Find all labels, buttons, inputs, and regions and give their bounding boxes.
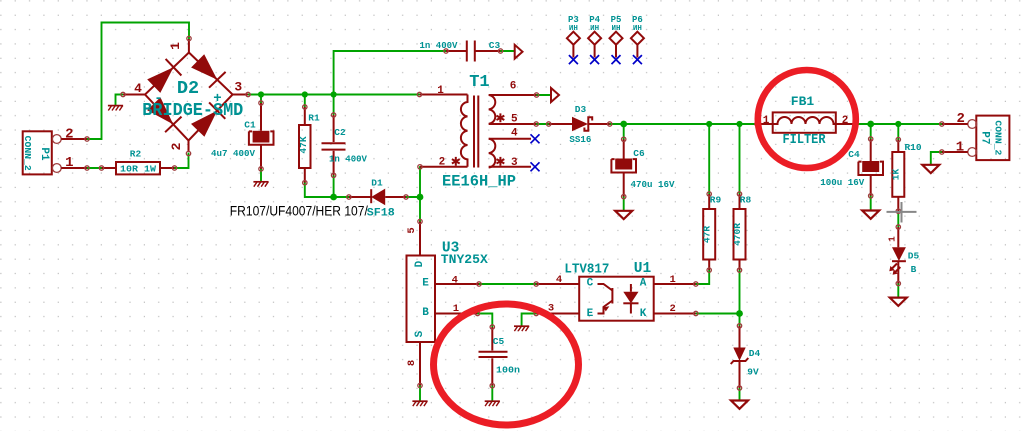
wire U3 pin8 to ground [419,386,421,402]
pin-end circle R8 top [737,192,741,196]
node junction C2/bus [331,91,337,97]
svg-text:P3: P3 [568,15,579,25]
test point P4 [588,15,601,64]
wire R8 top stub [739,124,741,194]
svg-text:FB1: FB1 [791,94,815,109]
ground D4 (open triangle) [731,401,748,409]
wire U1 pin1 to R9 [696,270,709,284]
svg-text:R10: R10 [904,142,921,153]
wire C1 stub [260,95,262,104]
svg-text:D3: D3 [575,104,587,115]
ground C4 (open triangle) [862,211,879,219]
svg-text:100n: 100n [496,365,520,376]
capacitor C4 [820,139,883,196]
svg-text:SS16: SS16 [569,134,591,145]
wire C4 top stub [870,124,872,139]
pin-end circle R2 right [172,166,176,170]
pin-end circle R9 top [707,192,711,196]
pin-end circle T1 pin2 [418,165,422,169]
hierarchical arrow T1 pin6 net [551,88,559,102]
wire junction down to U3 pin5 [419,197,421,222]
pin-end circle bridge pin2 [186,151,190,155]
svg-text:C6: C6 [633,148,645,159]
polarity mark pin5 [497,113,505,122]
svg-text:5: 5 [511,114,518,126]
svg-text:+: + [213,91,221,107]
hierarchical arrow C3 net [515,45,523,59]
capacitor C2 [322,115,368,175]
LED inside U1 [630,284,632,314]
node junction C1/bus [258,91,264,97]
node junction R10/output bus [895,121,901,127]
wire T1 pin5 to D3 [536,123,549,125]
svg-text:R1: R1 [308,113,320,124]
wire C5 bottom to ground [491,386,493,401]
svg-text:5: 5 [406,227,418,233]
diode D3 schottky [549,104,610,145]
svg-text:9V: 9V [747,367,759,378]
wire R10 bottom to D5 [897,211,899,227]
svg-text:P1: P1 [38,147,50,161]
svg-text:E: E [587,308,594,320]
svg-text:B: B [911,264,917,275]
svg-text:C4: C4 [848,149,860,160]
svg-text:1K: 1K [891,169,902,181]
pin-end circle C6 bottom [622,194,626,198]
pin-end circle U3 pin5 [418,219,422,223]
svg-text:C2: C2 [334,127,346,138]
pin-end circle T1 pin1 [417,92,421,96]
svg-text:P6: P6 [632,15,643,25]
pin-end circle C3 left [444,49,448,53]
op-amp U3 TNY25X [406,222,489,386]
capacitor C5 [479,327,521,386]
pin-end circle bridge pin4 [121,92,125,96]
annotation circle around FB1 [758,70,856,168]
pin-end circle R2 left [99,166,103,170]
resistor R9 [702,194,722,270]
resistor R2 [102,149,175,175]
wire R1 top stub [304,95,306,108]
pin-end circle P1 pin1 [85,166,89,170]
pin-end circle C5 top [490,325,494,329]
svg-text:T1: T1 [469,73,489,92]
svg-text:FR107/UF4007/HER 107/: FR107/UF4007/HER 107/ [230,204,368,220]
svg-text:1: 1 [887,236,898,242]
wire C6 top stub [623,124,625,139]
optocoupler U1 LTV817 [536,261,696,321]
note text FR107 [230,204,368,220]
pin-end circle bridge pin3 [246,92,250,96]
svg-text:C: C [587,278,594,290]
diode BR B->R [191,111,217,137]
svg-text:CONN_2: CONN_2 [993,120,1003,155]
pin-end circle R10 bottom [896,209,900,213]
polarity mark pin3 [497,157,505,166]
svg-text:P7: P7 [979,131,991,144]
svg-text:1: 1 [670,274,676,286]
pin-end circle P7 pin2 [940,122,944,126]
svg-text:A: A [640,278,647,290]
wire C3 to arrow [501,50,515,52]
svg-text:1n 400V: 1n 400V [329,154,367,165]
svg-text:D: D [414,260,426,267]
pin-end circle C4 top [869,137,873,141]
svg-text:C5: C5 [493,336,505,347]
svg-text:LTV817: LTV817 [564,262,609,278]
svg-text:2: 2 [956,111,964,127]
resistor R8 [732,194,752,270]
pin-end circle T1 pin5 [534,122,538,126]
pin-end circle R1 bottom [303,181,307,185]
wire U3 pinE to U1 pin4 [479,283,536,285]
pin-end circle R1 top [303,105,307,109]
diode TL L->T [147,67,173,93]
node junction D1/T1 pin2/U3 pin5 [417,194,424,201]
pin-end circle U1 pin1 [694,282,698,286]
diode TR T->R [191,54,217,80]
pin-end circle C5 bottom [490,384,494,388]
ground P7 pin1 (open triangle) [922,165,939,173]
svg-text:1: 1 [168,42,183,50]
node junction R9/secondary bus [706,121,712,127]
svg-text:3: 3 [234,80,242,95]
svg-text:FILTER: FILTER [783,132,826,148]
svg-text:C1: C1 [244,119,256,130]
svg-text:SF18: SF18 [367,207,395,219]
pin-end circle D3 right [608,122,612,126]
pin-end circle D4 top [737,324,741,328]
svg-text:D4: D4 [749,348,761,359]
svg-text:10R 1W: 10R 1W [120,164,156,175]
wire HV bus bridge pin3 to T1 pin1 [248,94,420,96]
node junction C2/D1 net [330,194,337,201]
svg-text:R2: R2 [130,149,142,160]
svg-text:CONN_2: CONN_2 [22,136,32,171]
svg-text:1: 1 [437,85,444,97]
svg-text:2: 2 [842,115,849,127]
svg-text:D1: D1 [371,178,383,189]
wire top loop bridge pin1 to P1 pin2 [87,23,189,140]
wire T1 pin6 to arrow [537,94,552,96]
node junction R8/D4/U1 pin2 [736,310,743,317]
svg-text:3: 3 [511,157,518,169]
pin-end circle P7 pin1 [940,150,944,154]
svg-text:8: 8 [406,360,418,366]
connector P7 [942,111,1010,160]
ground C5 (hatched) [485,401,500,406]
transformer T1 [420,73,537,190]
svg-text:2: 2 [670,303,676,315]
node junction R8/secondary bus [736,121,742,127]
pin-end circle FB1 left [755,122,759,126]
wire C2 top stub [333,95,335,116]
pin-end circle bridge pin1 [187,36,191,40]
LED D5 [887,227,920,284]
pin-end circle D5 top [896,225,900,229]
svg-text:D2: D2 [177,78,199,99]
ground U1 pin3 stub (hatched) [514,326,529,331]
pin-end circle D1 right [404,195,408,199]
svg-text:B: B [422,307,429,319]
svg-text:EE16H_HP: EE16H_HP [442,172,516,190]
pin-end circle D4 bottom [737,386,741,390]
svg-text:TNY25X: TNY25X [441,253,489,267]
svg-text:1: 1 [453,303,459,315]
svg-text:-: - [154,91,162,107]
diode D1 [349,178,406,220]
wire P1 pin1 to R2 [87,167,102,169]
pin-end circle C2 bottom [331,173,335,177]
svg-text:1: 1 [65,155,73,171]
pin-end circle R10 top [896,137,900,141]
svg-text:4u7 400V: 4u7 400V [211,148,255,159]
pin-end circle U3 pin4 [477,282,481,286]
wire D4 bottom to ground [739,388,741,400]
ground U3 pin8 (hatched) [412,401,427,406]
pin-end circle T1 pin6 [534,93,538,97]
diode BL L->B [147,97,173,124]
wire U1 pin2 to R8 and D4 [696,270,740,313]
pin-end circle D3 left [547,122,551,126]
test point P6 [631,15,644,64]
resistor R10 [891,140,922,212]
svg-text:P5: P5 [611,15,622,25]
svg-text:S: S [414,330,426,337]
svg-text:4: 4 [452,275,458,287]
svg-text:1: 1 [763,115,770,127]
svg-text:2: 2 [169,142,184,150]
pin-end circle C2 top [331,113,335,117]
bridge rectifier D2 [123,39,248,152]
svg-text:R8: R8 [740,195,752,206]
capacitor C3 [420,40,501,62]
pin-end circle U1 pin4 [534,282,538,286]
connector P1 [22,127,87,175]
pin-end circle C3 right [498,49,502,53]
filter FB1 [757,94,855,148]
pin-end circle C4 bottom [869,194,873,198]
pin-end circle C1 top [259,101,263,105]
test point P5 [610,15,623,64]
no-connect T1 pin4 [531,134,540,143]
polarity mark pin2 [452,157,460,166]
svg-text:P4: P4 [589,15,600,25]
pin-end circle R8 bottom [737,268,741,272]
svg-text:100u 16V: 100u 16V [820,177,864,188]
svg-text:4: 4 [134,81,142,96]
svg-text:470u 16V: 470u 16V [631,179,675,190]
svg-text:47K: 47K [298,136,309,153]
svg-text:47R: 47R [702,226,713,243]
wire D3 to FB1 secondary bus [610,123,757,125]
wire P7 pin1 to ground [931,152,942,164]
svg-text:U1: U1 [634,261,652,277]
svg-text:R9: R9 [710,195,722,206]
svg-text:K: K [640,308,647,320]
svg-text:1n 400V: 1n 400V [420,40,458,51]
pin-end circle D1 left [347,195,351,199]
ground D5 (open triangle) [890,298,907,306]
wire R9 top stub [708,124,710,194]
no-connect T1 pin3 [531,162,540,171]
svg-text:6: 6 [510,81,517,93]
cursor cross [887,202,917,223]
test point P3 [567,15,580,64]
wire C2 junction up to C3 [334,51,446,95]
wire C4 bottom to ground [870,196,872,210]
wire R1 bottom to D1 net [305,183,349,197]
wire FB1 pin2 to P7 pin2 [855,123,942,125]
svg-text:2: 2 [439,157,446,169]
wire R2 to bridge pin2 [175,154,189,169]
wire bridge pin4 to ground [116,95,124,106]
ground bridge pin4 (hatched) [108,106,123,111]
svg-text:2: 2 [65,127,73,143]
wire C1 bottom to ground [260,169,262,182]
svg-text:1: 1 [956,140,964,156]
ground C1 (hatched) [253,182,268,187]
pin-end circle D5 bottom [896,281,900,285]
pin-end circle R9 bottom [707,268,711,272]
wire C6 bottom to ground [623,197,625,210]
wire D1 to T1 pin2 / U3 pin5 [406,167,420,197]
svg-text:470R: 470R [732,223,743,246]
svg-text:4: 4 [556,274,562,286]
capacitor C1 [211,103,274,169]
pin-end circle U3 pin8 [418,383,422,387]
wire K node down to D4 [739,314,741,326]
annotation circle around C5 [434,304,579,425]
pin-end circle P1 pin2 [85,137,89,141]
ground C6 (open triangle) [615,211,632,219]
wire C2 bottom stub [333,175,335,197]
pin-end circle U1 pin2 [694,311,698,315]
resistor R1 [298,107,320,183]
wire U3 pinB to C5 [478,314,493,328]
pin-end circle U1 pin3 [534,311,538,315]
wire R10 top stub [897,124,899,140]
wire D5 bottom to ground [897,284,899,298]
node junction C6/secondary bus [620,121,627,128]
svg-text:E: E [422,278,429,290]
node junction R1/bus [302,91,308,97]
pin-end circle C6 top [622,137,626,141]
svg-text:4: 4 [511,128,518,140]
capacitor C6 [611,139,674,196]
transistor inside U1 [598,284,613,314]
pin-end circle U3 pin1 [475,311,479,315]
wire U1 pin3 to ground stub [522,314,537,327]
pin-end circle FB1 right [853,122,857,126]
svg-text:D5: D5 [908,251,920,262]
pin-end circle C1 bottom [259,167,263,171]
node junction C4/output bus [867,121,874,128]
zener D4 [731,326,761,388]
